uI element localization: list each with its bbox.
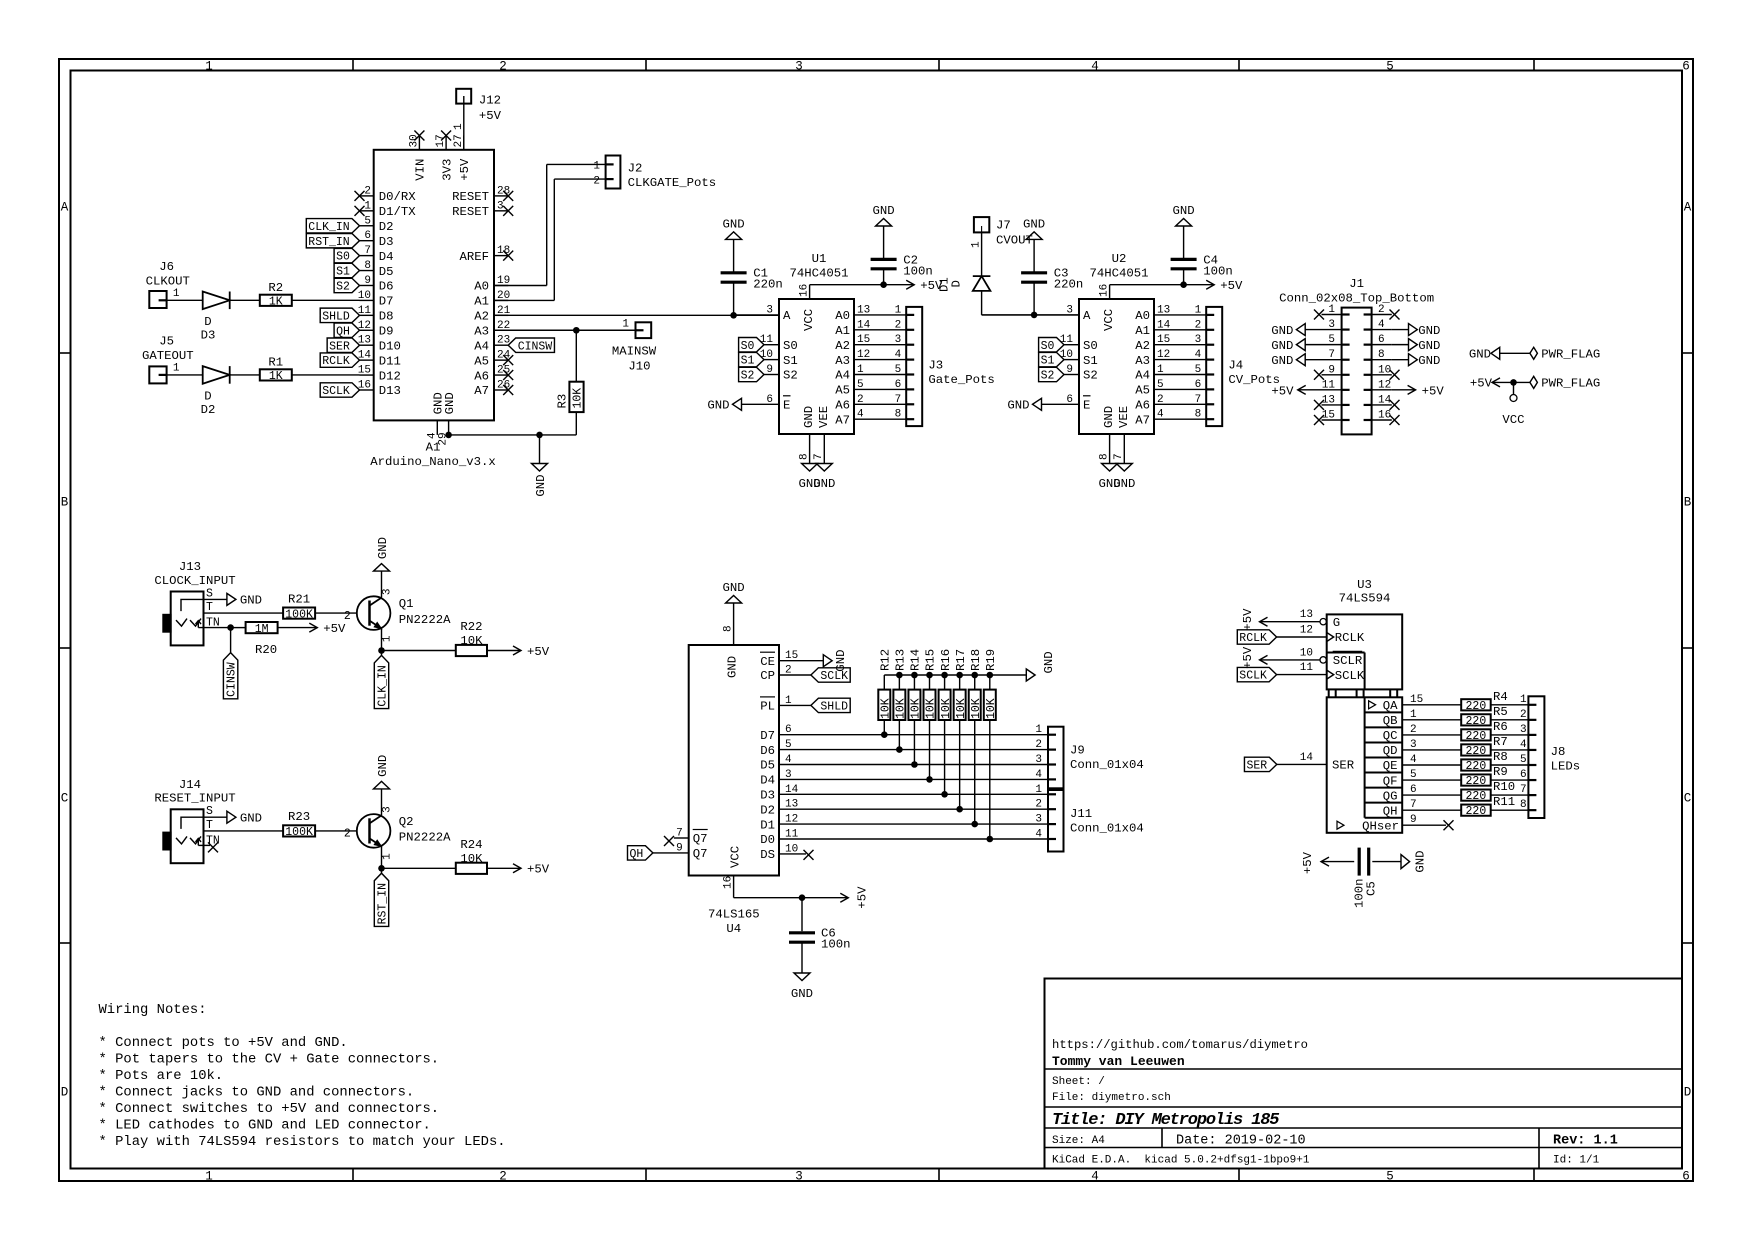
- svg-text:14: 14: [1157, 319, 1171, 331]
- svg-text:1M: 1M: [255, 623, 269, 636]
- svg-text:13: 13: [857, 304, 870, 316]
- svg-text:S0: S0: [741, 340, 755, 353]
- svg-text:QE: QE: [1383, 759, 1398, 773]
- svg-text:R16: R16: [939, 649, 953, 671]
- svg-text:4: 4: [1035, 829, 1042, 841]
- svg-text:GND: GND: [707, 399, 729, 413]
- svg-text:15: 15: [857, 334, 870, 346]
- svg-text:J13: J13: [179, 560, 201, 574]
- svg-text:+5V: +5V: [1301, 851, 1315, 874]
- svg-text:5: 5: [857, 379, 864, 391]
- svg-text:RST_IN: RST_IN: [377, 883, 390, 924]
- svg-text:1: 1: [1520, 694, 1527, 706]
- svg-text:10: 10: [1060, 349, 1073, 361]
- svg-text:2: 2: [364, 185, 371, 197]
- svg-text:D6: D6: [379, 280, 394, 294]
- svg-text:5: 5: [1386, 59, 1394, 73]
- svg-text:PWR_FLAG: PWR_FLAG: [1541, 377, 1600, 391]
- svg-text:Wiring Notes:: Wiring Notes:: [99, 1002, 207, 1018]
- svg-text:QH: QH: [1383, 804, 1398, 818]
- svg-text:CLK_IN: CLK_IN: [308, 221, 349, 234]
- svg-text:3: 3: [895, 334, 902, 346]
- svg-text:7: 7: [895, 394, 902, 406]
- svg-text:S0: S0: [1083, 339, 1098, 353]
- svg-text:A0: A0: [1135, 309, 1150, 323]
- svg-text:B: B: [1684, 496, 1692, 510]
- svg-text:8: 8: [1098, 453, 1110, 460]
- svg-text:6: 6: [1410, 784, 1417, 796]
- svg-text:S2: S2: [741, 370, 755, 383]
- svg-text:8: 8: [1520, 799, 1527, 811]
- svg-text:R12: R12: [879, 649, 893, 671]
- svg-text:6: 6: [785, 724, 792, 736]
- svg-text:R18: R18: [969, 649, 983, 671]
- svg-text:4: 4: [857, 409, 864, 421]
- svg-text:15: 15: [785, 650, 798, 662]
- svg-text:A4: A4: [835, 369, 850, 383]
- svg-text:SCLK: SCLK: [1335, 669, 1365, 683]
- svg-text:T: T: [206, 601, 213, 614]
- svg-text:3V3: 3V3: [440, 159, 454, 181]
- svg-text:GND: GND: [376, 755, 390, 777]
- svg-text:13: 13: [1157, 304, 1170, 316]
- svg-text:A0: A0: [835, 309, 850, 323]
- svg-text:9: 9: [766, 364, 773, 376]
- svg-text:GND: GND: [1271, 339, 1293, 353]
- svg-text:A5: A5: [1135, 384, 1150, 398]
- svg-text:J14: J14: [179, 778, 201, 792]
- svg-text:9: 9: [1328, 364, 1335, 376]
- svg-text:https://github.com/tomarus/diy: https://github.com/tomarus/diymetro: [1052, 1038, 1308, 1052]
- svg-text:3: 3: [795, 59, 803, 73]
- svg-text:GND: GND: [240, 594, 262, 608]
- svg-text:GND: GND: [240, 812, 262, 826]
- svg-text:D10: D10: [379, 339, 401, 353]
- svg-text:3: 3: [795, 1169, 803, 1183]
- svg-text:D11: D11: [379, 354, 401, 368]
- svg-text:220n: 220n: [753, 278, 783, 292]
- svg-text:* Connect jacks to GND and con: * Connect jacks to GND and connectors.: [99, 1085, 415, 1101]
- svg-text:PN2222A: PN2222A: [399, 613, 451, 627]
- svg-text:6: 6: [1682, 1169, 1690, 1183]
- svg-text:1: 1: [173, 363, 180, 375]
- svg-text:PWR_FLAG: PWR_FLAG: [1541, 348, 1600, 362]
- svg-text:QH: QH: [630, 848, 644, 861]
- svg-text:7: 7: [813, 453, 825, 460]
- svg-text:74LS594: 74LS594: [1339, 592, 1391, 606]
- svg-text:S1: S1: [336, 266, 350, 279]
- svg-text:14: 14: [857, 319, 871, 331]
- svg-text:D0/RX: D0/RX: [379, 190, 417, 204]
- svg-text:8: 8: [364, 260, 371, 272]
- svg-text:E: E: [783, 399, 790, 413]
- svg-text:GND: GND: [443, 392, 457, 414]
- svg-text:11: 11: [785, 829, 799, 841]
- svg-text:220: 220: [1466, 805, 1487, 818]
- svg-text:D0: D0: [760, 833, 775, 847]
- svg-text:4: 4: [426, 432, 438, 439]
- svg-text:10: 10: [1300, 647, 1313, 659]
- svg-text:S0: S0: [1041, 340, 1055, 353]
- svg-text:10K: 10K: [895, 698, 908, 719]
- svg-text:D1/TX: D1/TX: [379, 205, 417, 219]
- svg-text:GND: GND: [1102, 406, 1116, 428]
- svg-text:9: 9: [364, 275, 371, 287]
- svg-text:3: 3: [1520, 724, 1527, 736]
- svg-text:* Pots are 10k.: * Pots are 10k.: [99, 1068, 224, 1084]
- svg-text:2: 2: [895, 319, 902, 331]
- svg-text:15: 15: [1157, 334, 1170, 346]
- svg-text:QH: QH: [336, 325, 350, 338]
- svg-text:GND: GND: [1414, 850, 1428, 872]
- svg-text:220: 220: [1466, 730, 1487, 743]
- svg-text:GND: GND: [1418, 354, 1440, 368]
- svg-text:13: 13: [1300, 609, 1313, 621]
- svg-text:J4: J4: [1228, 359, 1243, 373]
- svg-text:R19: R19: [984, 649, 998, 671]
- svg-text:5: 5: [1157, 379, 1164, 391]
- svg-text:D2: D2: [201, 403, 216, 417]
- svg-text:1: 1: [1157, 364, 1164, 376]
- svg-text:10: 10: [358, 290, 371, 302]
- svg-text:CLKGATE_Pots: CLKGATE_Pots: [628, 176, 717, 190]
- svg-text:A1: A1: [474, 295, 489, 309]
- svg-text:D: D: [204, 390, 211, 404]
- svg-text:VIN: VIN: [414, 159, 428, 181]
- svg-text:GATEOUT: GATEOUT: [142, 349, 194, 363]
- svg-text:GND: GND: [1469, 348, 1491, 362]
- svg-text:Q2: Q2: [399, 815, 414, 829]
- svg-text:100K: 100K: [285, 608, 313, 621]
- svg-text:1: 1: [382, 635, 394, 642]
- svg-text:6: 6: [766, 394, 773, 406]
- svg-text:CVOUT: CVOUT: [996, 234, 1033, 248]
- svg-text:1: 1: [785, 695, 792, 707]
- svg-text:S: S: [206, 587, 213, 600]
- svg-text:10K: 10K: [985, 698, 998, 719]
- svg-text:A2: A2: [474, 310, 489, 324]
- svg-text:RST_IN: RST_IN: [308, 236, 349, 249]
- svg-text:Conn_02x08_Top_Bottom: Conn_02x08_Top_Bottom: [1279, 291, 1434, 305]
- svg-text:J2: J2: [628, 162, 643, 176]
- svg-text:1: 1: [1035, 724, 1042, 736]
- svg-text:D: D: [1684, 1086, 1692, 1100]
- svg-text:Q1: Q1: [399, 597, 414, 611]
- svg-text:2: 2: [1195, 319, 1202, 331]
- svg-text:6: 6: [364, 230, 371, 242]
- svg-text:J3: J3: [928, 359, 943, 373]
- svg-text:* Connect pots to +5V and GND.: * Connect pots to +5V and GND.: [99, 1035, 348, 1051]
- svg-text:File: diymetro.sch: File: diymetro.sch: [1052, 1092, 1171, 1104]
- svg-text:RESET: RESET: [452, 190, 489, 204]
- svg-text:CP: CP: [760, 669, 775, 683]
- svg-text:10K: 10K: [925, 698, 938, 719]
- svg-text:4: 4: [785, 754, 792, 766]
- svg-text:220: 220: [1466, 775, 1487, 788]
- svg-text:A: A: [61, 201, 69, 215]
- svg-text:100n: 100n: [1203, 264, 1233, 278]
- svg-text:D2: D2: [760, 803, 775, 817]
- svg-text:A6: A6: [835, 399, 850, 413]
- svg-text:A7: A7: [474, 384, 489, 398]
- svg-text:7: 7: [1195, 394, 1202, 406]
- svg-text:2: 2: [499, 59, 507, 73]
- svg-text:S0: S0: [783, 339, 798, 353]
- svg-text:SCLR: SCLR: [1333, 654, 1363, 668]
- svg-text:10K: 10K: [910, 698, 923, 719]
- svg-text:GND: GND: [1042, 651, 1056, 673]
- svg-text:R23: R23: [288, 810, 310, 824]
- svg-text:7: 7: [1410, 799, 1417, 811]
- svg-text:J12: J12: [479, 94, 501, 108]
- svg-text:100K: 100K: [285, 826, 313, 839]
- svg-text:3: 3: [1328, 319, 1335, 331]
- svg-text:J5: J5: [159, 335, 174, 349]
- svg-text:CINSW: CINSW: [226, 662, 239, 697]
- svg-text:A: A: [783, 309, 791, 323]
- svg-text:100n: 100n: [821, 938, 851, 952]
- svg-text:J6: J6: [159, 260, 174, 274]
- svg-text:A5: A5: [835, 384, 850, 398]
- svg-text:R11: R11: [1493, 795, 1515, 809]
- svg-text:GND: GND: [1418, 339, 1440, 353]
- svg-text:R10: R10: [1493, 780, 1515, 794]
- svg-text:RCLK: RCLK: [322, 355, 350, 368]
- svg-text:7: 7: [1520, 784, 1527, 796]
- svg-text:VCC: VCC: [728, 846, 742, 868]
- svg-text:220: 220: [1466, 745, 1487, 758]
- svg-text:1: 1: [622, 319, 629, 331]
- svg-text:* LED cathodes to GND and LED: * LED cathodes to GND and LED connector.: [99, 1118, 431, 1134]
- svg-text:R6: R6: [1493, 720, 1508, 734]
- svg-text:1: 1: [364, 200, 371, 212]
- svg-text:8: 8: [798, 453, 810, 460]
- svg-text:12: 12: [1157, 349, 1170, 361]
- svg-text:D3: D3: [201, 329, 216, 343]
- svg-text:S: S: [206, 805, 213, 818]
- svg-text:4: 4: [1091, 1169, 1099, 1183]
- svg-text:1: 1: [382, 853, 394, 860]
- svg-text:Sheet: /: Sheet: /: [1052, 1076, 1105, 1088]
- svg-text:CE: CE: [760, 655, 775, 669]
- svg-text:* Pot tapers to the CV + Gate: * Pot tapers to the CV + Gate connectors…: [99, 1052, 440, 1068]
- svg-text:2: 2: [1035, 799, 1042, 811]
- svg-text:R14: R14: [909, 649, 923, 671]
- svg-text:J9: J9: [1070, 744, 1085, 758]
- svg-text:RESET: RESET: [452, 205, 489, 219]
- svg-text:A6: A6: [1135, 399, 1150, 413]
- svg-text:LEDs: LEDs: [1551, 760, 1581, 774]
- svg-text:14: 14: [785, 784, 799, 796]
- svg-text:J8: J8: [1551, 745, 1566, 759]
- svg-text:C: C: [1684, 792, 1692, 806]
- svg-text:SHLD: SHLD: [322, 310, 350, 323]
- svg-text:R22: R22: [460, 620, 482, 634]
- svg-text:VEE: VEE: [817, 406, 831, 428]
- svg-text:10: 10: [760, 349, 773, 361]
- svg-text:11: 11: [1060, 334, 1074, 346]
- svg-text:J11: J11: [1070, 807, 1092, 821]
- svg-text:220: 220: [1466, 790, 1487, 803]
- svg-text:A0: A0: [474, 280, 489, 294]
- svg-text:C5: C5: [1365, 881, 1379, 896]
- svg-text:6: 6: [1066, 394, 1073, 406]
- svg-text:1: 1: [205, 1169, 213, 1183]
- svg-text:2: 2: [1157, 394, 1164, 406]
- svg-text:D5: D5: [760, 759, 775, 773]
- svg-text:Tommy van Leeuwen: Tommy van Leeuwen: [1052, 1054, 1185, 1069]
- svg-text:27: 27: [453, 134, 465, 147]
- svg-text:+5V: +5V: [1241, 608, 1255, 631]
- svg-text:VEE: VEE: [1117, 406, 1131, 428]
- svg-text:2: 2: [785, 665, 792, 677]
- svg-text:1K: 1K: [269, 296, 283, 309]
- svg-text:SER: SER: [329, 340, 350, 353]
- svg-text:QB: QB: [1383, 714, 1398, 728]
- svg-text:MAINSW: MAINSW: [612, 345, 657, 359]
- svg-text:4: 4: [1035, 769, 1042, 781]
- svg-text:2: 2: [593, 175, 600, 187]
- svg-text:SER: SER: [1332, 759, 1355, 773]
- svg-text:100n: 100n: [903, 264, 933, 278]
- svg-text:8: 8: [895, 409, 902, 421]
- svg-text:8: 8: [1195, 409, 1202, 421]
- svg-text:S2: S2: [783, 369, 798, 383]
- svg-text:2: 2: [1378, 304, 1385, 316]
- svg-text:1: 1: [1410, 709, 1417, 721]
- svg-text:D2: D2: [379, 220, 394, 234]
- svg-text:+5V: +5V: [479, 109, 502, 123]
- svg-text:GND: GND: [1023, 217, 1045, 231]
- svg-text:6: 6: [1195, 379, 1202, 391]
- svg-text:RCLK: RCLK: [1335, 631, 1365, 645]
- svg-text:PL: PL: [760, 700, 775, 714]
- svg-text:CLK_IN: CLK_IN: [377, 665, 390, 706]
- svg-text:D3: D3: [379, 235, 394, 249]
- svg-text:D7: D7: [379, 295, 394, 309]
- svg-text:GND: GND: [813, 477, 835, 491]
- svg-text:4: 4: [1091, 59, 1099, 73]
- svg-text:U4: U4: [726, 922, 741, 936]
- svg-text:KiCad E.D.A. kicad 5.0.2+dfsg: KiCad E.D.A. kicad 5.0.2+dfsg1-1bpo9+1: [1052, 1155, 1310, 1167]
- svg-text:2: 2: [1520, 709, 1527, 721]
- svg-text:Gate_Pots: Gate_Pots: [928, 373, 994, 387]
- svg-text:A3: A3: [474, 324, 489, 338]
- svg-text:5: 5: [1520, 754, 1527, 766]
- svg-text:11: 11: [760, 334, 774, 346]
- svg-text:R20: R20: [255, 643, 277, 657]
- svg-text:GND: GND: [534, 475, 548, 497]
- svg-text:S0: S0: [336, 251, 350, 264]
- svg-text:3: 3: [497, 200, 504, 212]
- svg-text:+5V: +5V: [855, 886, 869, 909]
- svg-text:10K: 10K: [460, 634, 483, 648]
- svg-text:Conn_01x04: Conn_01x04: [1070, 821, 1144, 835]
- svg-text:1: 1: [1035, 784, 1042, 796]
- svg-text:D8: D8: [379, 310, 394, 324]
- svg-text:1K: 1K: [269, 370, 283, 383]
- svg-text:CINSW: CINSW: [518, 340, 553, 353]
- svg-text:Q7: Q7: [693, 832, 708, 846]
- svg-text:D: D: [204, 315, 211, 329]
- svg-text:6: 6: [895, 379, 902, 391]
- svg-text:220: 220: [1466, 700, 1487, 713]
- svg-text:GND: GND: [376, 537, 390, 559]
- svg-text:QG: QG: [1383, 789, 1398, 803]
- svg-text:9: 9: [676, 842, 683, 854]
- svg-text:3: 3: [382, 588, 394, 595]
- svg-text:10: 10: [785, 843, 798, 855]
- svg-text:R9: R9: [1493, 765, 1508, 779]
- svg-text:7: 7: [1113, 453, 1125, 460]
- svg-text:+5V: +5V: [1241, 646, 1255, 669]
- svg-text:Size: A4: Size: A4: [1052, 1135, 1105, 1147]
- svg-text:G: G: [1333, 616, 1340, 630]
- svg-text:10K: 10K: [572, 388, 585, 409]
- svg-text:GND: GND: [1007, 399, 1029, 413]
- svg-text:14: 14: [1300, 752, 1314, 764]
- svg-text:4: 4: [1195, 349, 1202, 361]
- svg-text:7: 7: [676, 828, 683, 840]
- svg-text:5: 5: [1195, 364, 1202, 376]
- svg-text:R7: R7: [1493, 735, 1508, 749]
- svg-text:8: 8: [1378, 349, 1385, 361]
- svg-text:D9: D9: [379, 324, 394, 338]
- svg-text:R17: R17: [954, 649, 968, 671]
- svg-text:A2: A2: [1135, 339, 1150, 353]
- svg-text:A2: A2: [835, 339, 850, 353]
- svg-text:3: 3: [1410, 739, 1417, 751]
- svg-text:8: 8: [722, 625, 734, 632]
- svg-text:12: 12: [1378, 379, 1391, 391]
- svg-text:+5V: +5V: [527, 645, 550, 659]
- svg-text:SHLD: SHLD: [820, 701, 848, 714]
- svg-text:Conn_01x04: Conn_01x04: [1070, 758, 1144, 772]
- svg-text:2: 2: [857, 394, 864, 406]
- svg-text:10K: 10K: [460, 852, 483, 866]
- svg-text:R2: R2: [268, 281, 283, 295]
- svg-text:AREF: AREF: [459, 250, 489, 264]
- svg-text:+5V: +5V: [323, 622, 346, 636]
- svg-text:D4: D4: [760, 774, 775, 788]
- svg-text:GND: GND: [1418, 324, 1440, 338]
- svg-text:Arduino_Nano_v3.x: Arduino_Nano_v3.x: [370, 455, 495, 469]
- svg-text:11: 11: [1300, 662, 1314, 674]
- svg-text:S1: S1: [1041, 355, 1055, 368]
- svg-text:SER: SER: [1246, 760, 1267, 773]
- svg-text:6: 6: [1378, 334, 1385, 346]
- svg-text:* Connect switches to +5V and: * Connect switches to +5V and connectors…: [99, 1101, 440, 1117]
- svg-text:1: 1: [173, 288, 180, 300]
- svg-text:A1: A1: [835, 324, 850, 338]
- svg-text:R15: R15: [924, 649, 938, 671]
- svg-text:SCLK: SCLK: [1239, 670, 1267, 683]
- svg-text:Date: 2019-02-10: Date: 2019-02-10: [1176, 1134, 1306, 1149]
- svg-text:GND: GND: [802, 406, 816, 428]
- svg-text:GND: GND: [723, 217, 745, 231]
- svg-text:GND: GND: [1271, 354, 1293, 368]
- svg-text:5: 5: [785, 739, 792, 751]
- svg-text:GND: GND: [1173, 204, 1195, 218]
- svg-text:RESET_INPUT: RESET_INPUT: [154, 792, 235, 806]
- svg-text:VCC: VCC: [1102, 309, 1116, 331]
- svg-text:A6: A6: [474, 369, 489, 383]
- svg-text:A4: A4: [474, 339, 489, 353]
- svg-text:3: 3: [1035, 814, 1042, 826]
- svg-text:Q7: Q7: [693, 847, 708, 861]
- svg-text:Id: 1/1: Id: 1/1: [1553, 1155, 1600, 1167]
- svg-text:6: 6: [1520, 769, 1527, 781]
